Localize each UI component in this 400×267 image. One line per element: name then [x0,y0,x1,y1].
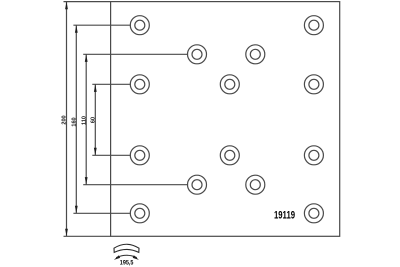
svg-text:195,5: 195,5 [120,259,134,267]
svg-text:160: 160 [71,117,77,126]
svg-text:200: 200 [62,115,68,124]
svg-text:19119: 19119 [274,209,296,222]
svg-text:110: 110 [81,116,87,125]
svg-text:60: 60 [90,117,96,123]
